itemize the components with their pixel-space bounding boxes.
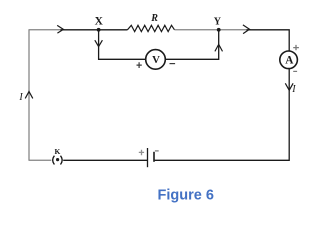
- node X dot: [97, 28, 101, 32]
- wire: voltmeter branch right, up to Y: [166, 30, 219, 60]
- wire: right vertical below ammeter to bottom-right corner: [155, 69, 290, 161]
- key K center dot: [56, 158, 59, 161]
- wire: left vertical (gray): [28, 30, 30, 161]
- wire: top gray segment resistor to arrow2 (through Y): [175, 29, 247, 31]
- node Y dot: [217, 28, 221, 32]
- ammeter + label: [293, 45, 299, 50]
- key K right paren: [61, 156, 63, 165]
- resistor R zigzag: [127, 25, 174, 31]
- arrow down on voltmeter branch left: [95, 40, 103, 46]
- battery - label: [155, 150, 159, 152]
- svg-text:X: X: [95, 16, 104, 28]
- battery + label: [139, 150, 144, 156]
- voltmeter - label: [170, 63, 176, 65]
- battery cell long plate (positive): [147, 148, 149, 167]
- arrow up on left wire: [25, 92, 33, 99]
- wire: voltmeter branch left vertical from X: [99, 30, 146, 60]
- ammeter - label: [293, 70, 297, 72]
- svg-text:A: A: [285, 55, 294, 67]
- svg-text:K: K: [54, 147, 60, 156]
- key K left paren: [53, 156, 55, 165]
- svg-text:I: I: [18, 92, 23, 103]
- svg-text:Figure 6: Figure 6: [157, 187, 213, 203]
- arrow down on right wire: [285, 83, 293, 90]
- svg-text:I: I: [291, 84, 296, 95]
- wire: top black segment arrow to resistor: [61, 29, 128, 31]
- wire: top black segment arrow2 to top-right corner, down to ammeter: [247, 30, 290, 51]
- ammeter A circle U2: [280, 51, 298, 69]
- voltmeter + label: [137, 62, 142, 68]
- wire: bottom-left gray corner to key: [29, 159, 52, 161]
- svg-text:R: R: [150, 13, 158, 24]
- arrow current direction top-left: [57, 25, 63, 33]
- wire: bottom black battery to key: [63, 159, 147, 161]
- arrow current direction top-right: [243, 25, 250, 34]
- svg-text:V: V: [152, 54, 160, 66]
- svg-text:Y: Y: [214, 17, 222, 28]
- arrow up on voltmeter branch right: [215, 44, 223, 51]
- wire: top-left gray segment corner to arrow: [29, 29, 61, 31]
- battery cell short plate (negative): [153, 152, 155, 162]
- voltmeter V circle U1: [146, 50, 166, 70]
